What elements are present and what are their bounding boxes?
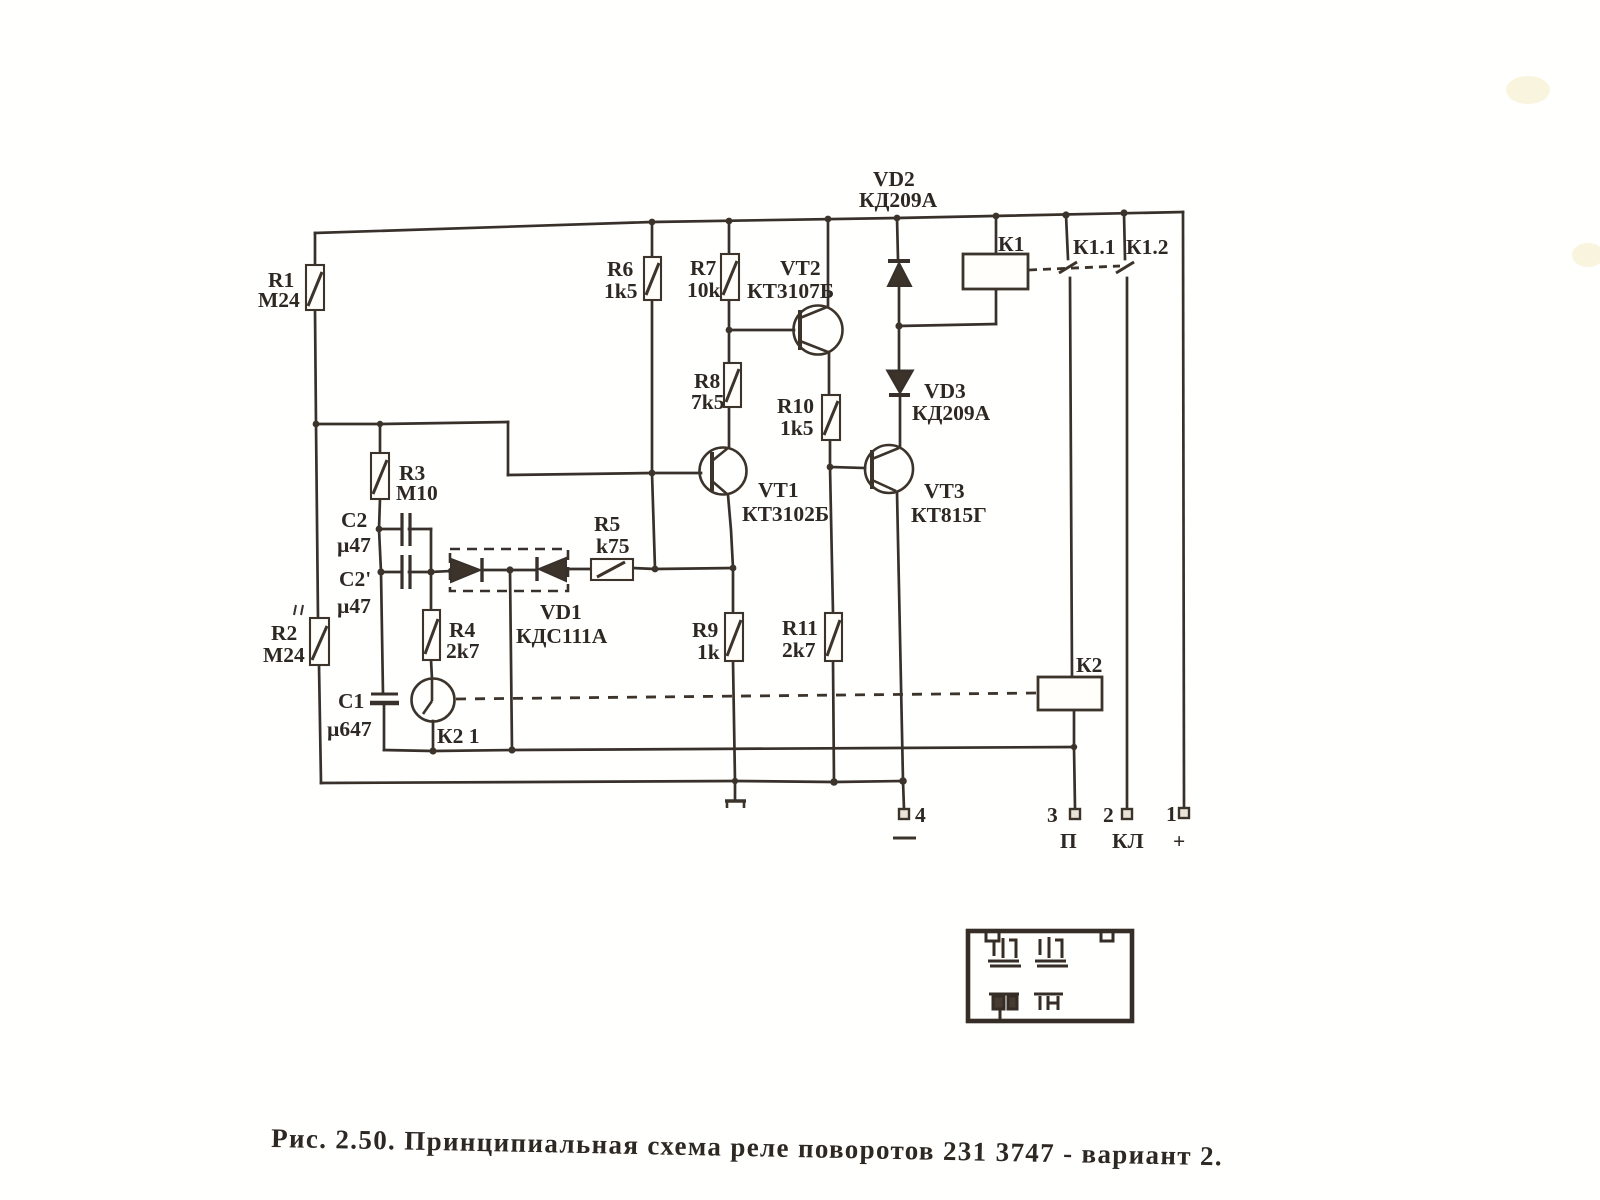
wire R8 bottom to VT1 collector [728, 407, 731, 446]
wire VT2 collector up to bus [827, 219, 830, 306]
wire C2' left lead [381, 571, 401, 574]
contact K2.1 circle [412, 679, 455, 722]
wire C2-C2' right link [430, 529, 433, 572]
wire K1 coil bottom lead [995, 289, 998, 324]
wire K1.1 contact upper [1066, 215, 1068, 259]
wire VD3 to VT3 collector [899, 395, 902, 446]
svg-text:R2: R2 [271, 621, 297, 645]
wire R4 top lead [430, 572, 433, 610]
node K2.1 bottom [429, 747, 436, 754]
resistor R7 [721, 254, 739, 300]
svg-text:µ647: µ647 [327, 717, 372, 741]
wire node E to K1 coil [899, 324, 996, 326]
wire R4 bottom to K2.1 [431, 660, 432, 679]
node C2 tee [376, 526, 383, 533]
svg-text:КД209А: КД209А [859, 188, 938, 212]
node base line x652 [649, 470, 656, 477]
node VD1 entry [448, 568, 454, 574]
svg-text:К2 1: К2 1 [437, 724, 479, 748]
svg-text:1k5: 1k5 [780, 416, 813, 440]
svg-text:4: 4 [915, 803, 926, 827]
svg-text:VT1: VT1 [758, 478, 799, 502]
connector outline [968, 931, 1132, 1021]
contact K1.1 [1059, 262, 1077, 273]
resistor R6 [644, 257, 661, 300]
resistor R3 [371, 453, 389, 499]
resistor R5 [591, 559, 633, 580]
wire R10 bottom to node D [829, 440, 832, 467]
resistor R8 [724, 363, 741, 407]
diode VD1b (zener half) [537, 557, 566, 581]
svg-text:VT3: VT3 [924, 479, 965, 503]
dashed link K2.1 to K2 [456, 693, 1038, 699]
wire VD1a cathode to mid node [482, 569, 510, 572]
wire VT2 base lead [729, 329, 794, 332]
wire jog down at x508 [507, 422, 510, 475]
relay coil K1 [963, 254, 1028, 289]
svg-text:7k5: 7k5 [691, 390, 724, 414]
svg-text:К2: К2 [1076, 653, 1102, 677]
wire VT3 emitter down to rail [897, 492, 903, 781]
wire bottom rail [321, 781, 903, 783]
wire C2 left lead [379, 528, 401, 531]
svg-text:R10: R10 [777, 394, 814, 418]
svg-text:VD3: VD3 [924, 379, 966, 403]
node R3 tee [377, 421, 383, 427]
svg-text:Рис. 2.50. Принципиальная схем: Рис. 2.50. Принципиальная схема реле пов… [271, 1123, 1223, 1171]
wire left vertical R1 to node A [315, 310, 316, 424]
wire VT1 base line [508, 473, 701, 475]
svg-text:3: 3 [1047, 803, 1058, 827]
svg-text:R7: R7 [690, 256, 717, 280]
svg-text:10k: 10k [687, 278, 721, 302]
svg-text:2k7: 2k7 [446, 639, 480, 663]
svg-text:2: 2 [1103, 803, 1114, 827]
connector notch right [1101, 933, 1113, 941]
node bus-K1.1 [1062, 211, 1069, 218]
capacitor C1 [370, 694, 399, 703]
dashed link K1 to contacts [1029, 266, 1120, 270]
svg-text:µ47: µ47 [337, 594, 371, 618]
wire ground stub [734, 781, 737, 800]
svg-text:µ47: µ47 [337, 533, 371, 557]
wire K1.2 contact upper [1124, 213, 1125, 259]
node C2' left tee [377, 568, 384, 575]
svg-text:VD1: VD1 [540, 600, 582, 624]
connector pin bottom-right [1034, 994, 1063, 1010]
svg-text:КТ3107Б: КТ3107Б [747, 279, 834, 303]
node VD1 col bottom [508, 746, 515, 753]
wire C2' node to VD1 [431, 571, 451, 572]
svg-text:R6: R6 [607, 257, 634, 281]
node R10-VT3 [827, 464, 834, 471]
ground symbol [725, 801, 746, 808]
wire VD1 mid node down to inner rail [510, 570, 512, 750]
contact K1.2 [1116, 262, 1134, 273]
resistor R4 [423, 610, 440, 660]
transistor VT3 [865, 445, 913, 493]
wire R11 bottom to bottom rail [833, 661, 834, 782]
wire R3 bottom lead [379, 499, 380, 529]
svg-text:+: + [1173, 829, 1185, 853]
wire VT3 base lead [830, 467, 865, 468]
yellow scan smudge top right [1506, 76, 1600, 267]
svg-text:С1: С1 [338, 689, 364, 713]
wire K1.1 contact lower to K2 coil [1070, 278, 1072, 677]
terminal 2 [1122, 809, 1132, 819]
wire R5 right lead [633, 568, 733, 569]
wire VD1b anode to R5 [566, 568, 591, 571]
node C2'-R4 tee [427, 568, 434, 575]
wire terminal4 stub [903, 781, 904, 809]
node bus-R6 [649, 219, 656, 226]
svg-text:КТ815Г: КТ815Г [911, 503, 987, 527]
relay coil K2 [1038, 677, 1102, 710]
wire node D down to R11 [830, 467, 833, 613]
node R5-R6 [652, 566, 659, 573]
terminal 3 [1070, 809, 1080, 819]
wire VT2 emitter down to R10 [828, 353, 831, 395]
node VD1 mid [506, 566, 513, 573]
svg-text:R11: R11 [782, 616, 818, 640]
svg-text:1k5: 1k5 [604, 279, 637, 303]
wire R9 bottom to bottom rail [733, 661, 735, 781]
svg-text:R5: R5 [594, 512, 620, 536]
svg-text:КЛ: КЛ [1112, 829, 1144, 853]
transistor VT2 [794, 306, 843, 355]
label R2 ditto mark [294, 605, 303, 615]
svg-text:1k: 1k [697, 640, 720, 664]
node A left [313, 421, 320, 428]
VD1 dashed box [450, 549, 568, 591]
wire left col down to C1 [381, 572, 383, 694]
terminal 4 [899, 809, 909, 819]
diode VD2 [888, 261, 911, 286]
minus mark under terminal 4 [893, 837, 916, 840]
wire K1 coil top lead [995, 216, 998, 254]
svg-text:П: П [1060, 829, 1077, 853]
wire node E to VD3 [898, 326, 901, 370]
resistor R10 [822, 395, 840, 440]
terminal 1 [1179, 808, 1189, 818]
svg-text:К1.2: К1.2 [1126, 235, 1168, 259]
wire C2' right lead [409, 571, 431, 574]
connector pin bottom-left [989, 994, 1019, 1019]
node bus-R7 [726, 218, 733, 225]
wire right vertical to terminal 1 [1183, 212, 1184, 808]
wire R7 top lead [728, 221, 731, 254]
node bus-VT2 [825, 216, 832, 223]
node bus-K1.2 [1120, 209, 1127, 216]
wire K2.1 bottom lead [432, 721, 435, 751]
wire VT1 emitter down to node C [728, 495, 733, 568]
svg-text:М24: М24 [263, 643, 305, 667]
capacitor C2' [402, 555, 410, 589]
svg-text:М24: М24 [258, 288, 300, 312]
node emitter VT1 [730, 565, 737, 572]
node rail VT3 [899, 777, 907, 785]
wire left vertical upper (R1 top lead) [314, 233, 317, 265]
node bus-K1 [993, 213, 1000, 220]
svg-text:2k7: 2k7 [782, 638, 816, 662]
svg-text:К1: К1 [998, 232, 1024, 256]
node inner rail corner [1071, 744, 1077, 750]
svg-text:КДС111А: КДС111А [516, 624, 608, 648]
svg-text:КТ3102Б: КТ3102Б [742, 502, 829, 526]
wire VD2 top lead [897, 218, 898, 259]
wire node A horizontal [316, 422, 508, 424]
wire top supply bus [315, 212, 1183, 233]
diode VD1a (zener half) [451, 558, 482, 582]
wire node C to R9 [732, 568, 735, 613]
wire R6 top lead [651, 222, 654, 257]
wire C2 right lead [409, 528, 431, 531]
resistor R1 [306, 265, 324, 310]
resistor R2 [310, 618, 329, 665]
node VD2-VD3-K1 [895, 322, 902, 329]
wire VD1 mid node to VD1b [510, 569, 537, 572]
capacitor C2 [402, 513, 410, 546]
node bus-VD2 [894, 215, 901, 222]
wire R3 top lead [379, 424, 382, 453]
diode VD3 [888, 371, 912, 395]
svg-text:1: 1 [1166, 802, 1177, 826]
svg-text:С2': С2' [339, 567, 371, 591]
connector pin top-right [1035, 937, 1068, 966]
resistor R9 [725, 613, 743, 661]
node rail R11 [830, 778, 838, 786]
svg-text:К1.1: К1.1 [1073, 235, 1115, 259]
svg-text:VT2: VT2 [780, 256, 821, 280]
wire K2 coil bottom lead [1073, 710, 1076, 747]
wire K1.2 contact lower to terminal 2 [1126, 278, 1129, 809]
wire left vertical node A to R2 [316, 424, 318, 618]
node rail R9 [732, 778, 738, 784]
wire node B to R8 [728, 330, 731, 363]
wire C1 bottom to inner rail corner [383, 704, 386, 750]
svg-text:R9: R9 [692, 618, 718, 642]
wire VD2 bottom to node E [898, 286, 901, 326]
wire C2-C2' left link [379, 529, 381, 572]
svg-text:КД209А: КД209А [912, 401, 991, 425]
wire inner bottom rail [384, 747, 1074, 751]
svg-text:М10: М10 [396, 481, 438, 505]
node R7-R8-VT2 [726, 327, 733, 334]
connector pin top-left [988, 938, 1021, 966]
svg-text:С2: С2 [341, 508, 367, 532]
svg-text:k75: k75 [596, 534, 629, 558]
wire R6 bottom lead crossing base line [652, 300, 655, 569]
wire inner rail corner down to terminal 3 [1074, 747, 1075, 808]
wire R7 bottom to node B [728, 300, 731, 330]
wire left vertical R2 to bottom rail [319, 665, 321, 783]
resistor R11 [825, 613, 842, 661]
transistor VT1 [700, 448, 747, 495]
connector notch left [986, 933, 999, 941]
